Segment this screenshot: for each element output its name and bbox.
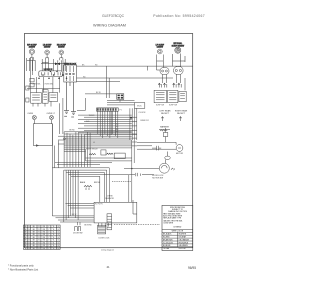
- svg-text:P2 P4 P6: P2 P4 P6: [95, 204, 103, 206]
- svg-text:B: B: [29, 242, 30, 244]
- surface unit 1: [27, 44, 37, 60]
- svg-text:OVEN LT: OVEN LT: [46, 113, 55, 115]
- svg-text:* Non-Illustrated Parts List: * Non-Illustrated Parts List: [8, 267, 38, 271]
- svg-text:WARMER: WARMER: [160, 125, 170, 128]
- switch box C: [179, 91, 186, 101]
- long vertical wires left: [52, 98, 63, 216]
- relay rails: [55, 149, 132, 164]
- svg-text:BK RD: BK RD: [69, 130, 75, 132]
- svg-text:RECEPT: RECEPT: [161, 113, 170, 115]
- right arrows below labels: [161, 117, 181, 122]
- svg-text:CHANGE W/O NOTICE: CHANGE W/O NOTICE: [168, 210, 188, 213]
- surface unit switch bank: [39, 69, 63, 77]
- fuse link bowtie: [41, 63, 65, 65]
- chassis ground: [64, 82, 76, 117]
- svg-text:B: B: [29, 234, 30, 236]
- oven switch right: [49, 93, 58, 102]
- svg-text:MOTOR: MOTOR: [176, 153, 184, 155]
- selector feed wire: [27, 88, 60, 90]
- svg-text:OVEN: OVEN: [27, 113, 33, 115]
- svg-text:COND WIRE: COND WIRE: [163, 222, 174, 224]
- wires to motor: [137, 142, 176, 149]
- svg-text:WIRING DIAGRAM: WIRING DIAGRAM: [93, 24, 126, 28]
- infinite switch RF: [174, 67, 184, 75]
- svg-text:GN-GREEN: GN-GREEN: [179, 245, 189, 247]
- svg-text:YL: YL: [53, 234, 55, 236]
- electronic oven control: [135, 103, 147, 114]
- junction node: [64, 138, 66, 140]
- svg-text:RD-RED: RD-RED: [163, 237, 170, 239]
- wires ovals to arrows: [157, 62, 186, 90]
- svg-text:GY-GRAY: GY-GRAY: [179, 236, 187, 239]
- svg-text:YL: YL: [53, 248, 55, 250]
- wires top-left drop: [27, 58, 66, 71]
- svg-text:SENSOR: SENSOR: [105, 198, 114, 200]
- svg-text:* Functional parts only: * Functional parts only: [8, 263, 34, 267]
- surface unit 3: [57, 44, 67, 60]
- legend notes box: [162, 205, 193, 250]
- svg-text:L1 N L2 H: L1 N L2 H: [44, 69, 53, 71]
- switch box B: [168, 90, 178, 102]
- terminal block TB: [64, 63, 77, 82]
- svg-text:YL: YL: [53, 242, 55, 244]
- svg-text:41: 41: [106, 265, 110, 269]
- surface unit LF: [156, 44, 165, 62]
- bake relay cluster: [86, 147, 125, 158]
- oven door rectangle: [94, 202, 137, 223]
- oven selector switch: [31, 93, 42, 104]
- svg-text:BR-BROWN: BR-BROWN: [163, 239, 173, 241]
- svg-text:DOOR LOCK: DOOR LOCK: [99, 237, 111, 239]
- svg-text:2400W: 2400W: [29, 47, 35, 49]
- center wire labels column: [116, 110, 122, 134]
- wire oval to latch: [166, 152, 168, 164]
- connector grid block: [107, 214, 112, 230]
- door switch u-shapes: [75, 227, 81, 232]
- svg-text:BK W: BK W: [96, 92, 101, 94]
- svg-text:YL: YL: [53, 232, 55, 234]
- svg-text:B: B: [29, 248, 30, 250]
- schematic border frame: [24, 34, 192, 248]
- corner wire into timer: [77, 98, 85, 110]
- lamp housing rectangle: [33, 120, 52, 147]
- drop wires to selector boxes: [37, 77, 60, 93]
- svg-text:wiring diagram: wiring diagram: [101, 250, 114, 252]
- door latch motor: [159, 163, 175, 173]
- center connector J1: [117, 94, 124, 103]
- oven switch center: [42, 90, 48, 104]
- infinite switch LF: [160, 68, 169, 75]
- harness grid horizontals: [58, 132, 137, 152]
- svg-text:YL: YL: [53, 229, 55, 231]
- center long verticals: [129, 140, 134, 202]
- svg-text:B: B: [29, 229, 30, 231]
- left connector stack: [26, 58, 34, 102]
- feeder wires L1 N L2: [77, 66, 193, 98]
- svg-text:TN-TAN: TN-TAN: [163, 247, 170, 250]
- svg-text:1500W: 1500W: [44, 47, 50, 49]
- oven lamp 1: [27, 113, 55, 120]
- latch labels: [152, 175, 164, 179]
- timer harness horizontals: [78, 115, 137, 134]
- svg-text:TIMER: TIMER: [89, 115, 96, 117]
- svg-text:YL: YL: [53, 245, 55, 247]
- small oval relay: [165, 156, 171, 159]
- svg-text:Publication No: 5995424067: Publication No: 5995424067: [153, 14, 205, 18]
- svg-text:SURF SW: SURF SW: [169, 105, 178, 107]
- svg-text:DOOR SW: DOOR SW: [73, 233, 82, 235]
- timer connector pin row: [97, 108, 119, 111]
- svg-text:B: B: [29, 232, 30, 234]
- svg-text:LEGEND: LEGEND: [174, 227, 182, 229]
- switch box A: [154, 90, 166, 102]
- line fuse: [163, 128, 168, 142]
- receptacle labels: [160, 110, 188, 115]
- svg-text:OVEN SEL: OVEN SEL: [32, 84, 41, 86]
- svg-text:BK-BLACK: BK-BLACK: [163, 233, 172, 236]
- svg-text:P1: P1: [120, 110, 122, 112]
- switch terminal arrows: [158, 83, 181, 88]
- svg-text:B: B: [29, 226, 30, 228]
- svg-text:BU-BLUE: BU-BLUE: [163, 245, 171, 247]
- lower corner wires: [65, 203, 94, 208]
- oven sensor label: [105, 196, 114, 200]
- wire to latch motor: [124, 168, 159, 170]
- svg-text:YL-YELLOW: YL-YELLOW: [163, 242, 173, 244]
- capacitor: [152, 146, 161, 151]
- bank contact dots: [38, 71, 67, 79]
- svg-text:EOC: EOC: [137, 106, 142, 108]
- convection motor: [176, 145, 184, 155]
- drops to bottom components: [99, 223, 112, 227]
- svg-text:YL: YL: [53, 240, 55, 242]
- svg-text:BAKE RELAY: BAKE RELAY: [86, 147, 98, 150]
- harness drop wires: [64, 170, 78, 222]
- svg-text:1200W: 1200W: [157, 47, 163, 49]
- thermal fuse wire: [68, 173, 154, 176]
- svg-text:SURF SW: SURF SW: [156, 105, 165, 107]
- svg-text:W-WHITE: W-WHITE: [179, 234, 187, 236]
- svg-text:BK W RD: BK W RD: [84, 225, 92, 227]
- svg-text:B: B: [29, 237, 30, 239]
- svg-text:OVEN RLY: OVEN RLY: [140, 120, 150, 122]
- wire into legend: [133, 200, 137, 214]
- svg-text:CLOCK: CLOCK: [139, 112, 147, 114]
- svg-text:OR-ORANGE: OR-ORANGE: [179, 238, 190, 241]
- svg-text:GLEF378CQC: GLEF378CQC: [102, 14, 125, 18]
- wire color code table: [24, 225, 61, 250]
- surface unit 2: [43, 44, 52, 60]
- svg-text:96/95: 96/95: [188, 266, 196, 270]
- bake element: [80, 181, 101, 190]
- hatched lock box: [98, 225, 111, 239]
- svg-text:BROIL: BROIL: [94, 182, 101, 184]
- svg-text:V-VIOLET: V-VIOLET: [179, 248, 187, 250]
- svg-text:B: B: [29, 245, 30, 247]
- svg-text:RECEPT: RECEPT: [177, 113, 186, 115]
- svg-text:MOTOR SW: MOTOR SW: [152, 177, 163, 179]
- wires below selector: [33, 101, 51, 106]
- svg-text:OVEN SW: OVEN SW: [44, 84, 53, 86]
- wires to EOC: [107, 100, 137, 140]
- svg-text:PR-PURPLE: PR-PURPLE: [179, 242, 190, 244]
- svg-text:YL: YL: [53, 226, 55, 228]
- surface unit RF dual: [172, 42, 185, 62]
- svg-text:REPLACE SAME TYPE: REPLACE SAME TYPE: [163, 217, 182, 220]
- junction dot center: [130, 117, 132, 119]
- dashed sensor wire: [112, 181, 132, 183]
- dashed wire to legend: [114, 224, 160, 226]
- lower bus: [52, 216, 94, 225]
- timer harness verticals: [98, 111, 118, 138]
- oven lamp 2: [49, 115, 53, 119]
- svg-text:B: B: [29, 240, 30, 242]
- svg-text:1500W: 1500W: [58, 47, 64, 49]
- svg-text:BK W: BK W: [72, 214, 77, 216]
- svg-text:BAKE: BAKE: [80, 181, 86, 184]
- warmer element: [159, 125, 170, 131]
- harness grid verticals: [64, 132, 90, 167]
- nested corner wires upper: [52, 168, 109, 203]
- svg-text:YL: YL: [53, 237, 55, 239]
